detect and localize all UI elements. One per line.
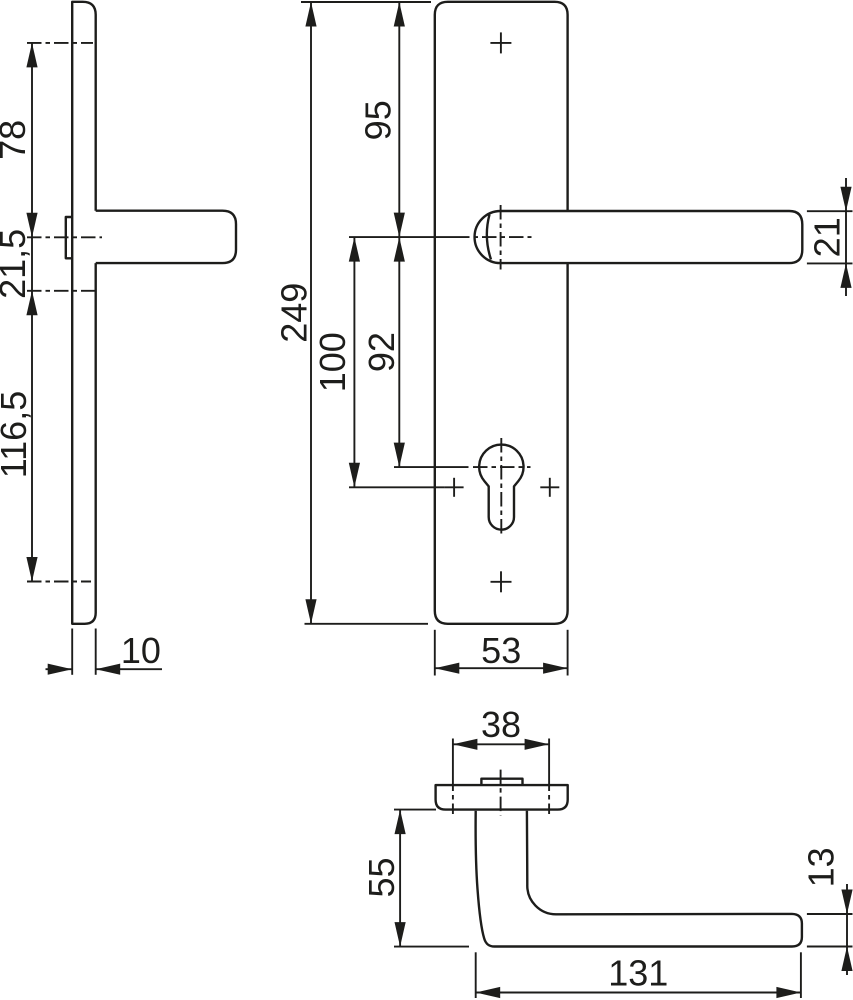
svg-text:78: 78 [0,120,33,160]
svg-text:21: 21 [807,217,848,257]
svg-text:55: 55 [361,857,402,897]
svg-text:10: 10 [121,630,161,671]
svg-text:95: 95 [358,100,399,140]
svg-text:249: 249 [274,283,315,343]
svg-text:13: 13 [801,847,842,887]
svg-text:116,5: 116,5 [0,391,34,478]
svg-text:38: 38 [481,704,521,745]
svg-text:53: 53 [481,630,521,671]
svg-text:131: 131 [608,953,668,994]
svg-text:92: 92 [361,332,402,372]
svg-text:100: 100 [312,332,353,392]
svg-text:21,5: 21,5 [0,229,33,299]
